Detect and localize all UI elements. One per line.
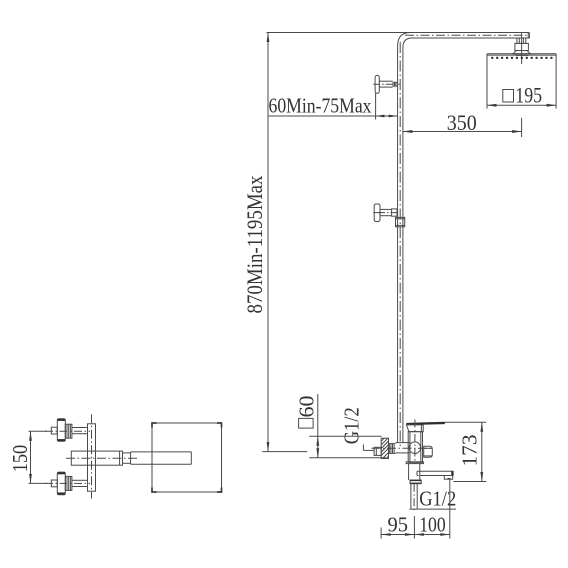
mixer vertical centerline xyxy=(414,420,416,465)
150 top extension xyxy=(29,430,48,432)
plan bottom union rod xyxy=(72,479,88,481)
shower head right side xyxy=(555,54,557,109)
plan bottom union nut xyxy=(51,480,57,487)
inlet cylinder xyxy=(396,442,410,444)
top bracket centerline xyxy=(373,83,399,85)
shower head left side xyxy=(486,54,488,109)
inlet thread xyxy=(389,443,396,445)
shower head top line xyxy=(487,53,556,55)
riser pipe centerline xyxy=(399,42,401,446)
dimension 150 line xyxy=(30,431,32,483)
arm end cap xyxy=(527,33,529,39)
173 top extension xyxy=(445,421,487,423)
plan bar centerline xyxy=(66,457,137,459)
head connector upper nut xyxy=(517,38,526,43)
aerator under spout xyxy=(444,476,452,480)
flange hatching xyxy=(381,438,384,441)
hose lines down xyxy=(410,484,412,509)
square symbol of 195 label xyxy=(503,90,514,103)
mixer body base lip xyxy=(406,462,423,464)
plan body vertical centerline xyxy=(91,414,93,498)
mixer lever handle xyxy=(406,422,445,425)
svg-text:173: 173 xyxy=(458,435,482,467)
middle extension xyxy=(413,516,415,539)
mixer collar xyxy=(406,425,423,432)
right extension xyxy=(449,480,451,539)
bottom extension tick xyxy=(262,451,307,453)
head connector flare xyxy=(513,51,530,54)
lower bracket rod xyxy=(380,208,392,210)
spout xyxy=(417,470,453,472)
arrows 95 xyxy=(381,533,391,536)
inlet centerline xyxy=(372,447,433,449)
top bracket rod xyxy=(379,80,392,82)
lower bracket centerline xyxy=(378,212,399,214)
lower bracket clamp block xyxy=(392,209,397,216)
top extension line + shower arm top line xyxy=(267,32,530,34)
150 bottom extension xyxy=(29,482,48,484)
spout end cap xyxy=(451,471,453,476)
pipe union block xyxy=(396,217,405,226)
svg-text:350: 350 xyxy=(447,110,477,135)
G1/2 leader horizontal xyxy=(363,449,374,451)
dimension 350 line xyxy=(403,131,522,133)
plan body vertical bar xyxy=(88,424,96,491)
head center cross tick xyxy=(516,54,529,56)
svg-text:870Min-1195Max: 870Min-1195Max xyxy=(242,176,267,314)
arrow bottom xyxy=(267,442,270,452)
plan wide bar inner end line xyxy=(119,451,121,465)
bracket extension line down xyxy=(375,93,377,119)
173 bottom extension xyxy=(454,481,487,483)
plan arm into square xyxy=(131,451,192,453)
square-60 dimension line xyxy=(317,394,319,458)
extension line 350 right xyxy=(521,118,523,137)
hose outlet fitting xyxy=(410,480,421,484)
svg-text:G1/2: G1/2 xyxy=(340,407,364,444)
svg-text:95: 95 xyxy=(388,512,409,536)
60Min-75Max dim line xyxy=(376,115,398,117)
arrow at pipe xyxy=(389,115,398,118)
plan top union ribs xyxy=(65,424,72,438)
arm centerline xyxy=(405,34,527,36)
95/100 dimension line xyxy=(381,534,450,536)
vertical dimension 870Min-1195Max line xyxy=(267,33,269,452)
60Min-75Max underline xyxy=(268,115,376,117)
G1/2 leader vertical xyxy=(362,445,364,451)
right outlet boss xyxy=(424,446,433,457)
svg-text:G1/2: G1/2 xyxy=(419,487,456,511)
plan arm transition xyxy=(123,452,131,454)
plan top union centerline xyxy=(45,430,90,432)
wall flange xyxy=(381,438,388,458)
G1/2 bottom underline xyxy=(410,508,457,510)
shower arm bottom line xyxy=(412,37,530,39)
svg-text:100: 100 xyxy=(419,512,446,536)
square-60 bottom extension xyxy=(309,457,386,459)
shower head second line xyxy=(487,54,556,56)
top bracket thread xyxy=(393,81,398,83)
svg-text:60Min-75Max: 60Min-75Max xyxy=(269,94,372,118)
head center vertical line xyxy=(521,33,523,64)
plan bottom union centerline xyxy=(45,482,90,484)
arrows 100 xyxy=(414,533,424,536)
arrow top xyxy=(267,33,270,43)
svg-text:60: 60 xyxy=(295,396,319,418)
arrow right of 195 xyxy=(547,104,557,107)
left extension xyxy=(380,528,382,539)
lower bracket handle bar xyxy=(374,204,380,222)
arm bend outer xyxy=(398,33,411,47)
plan square head xyxy=(152,423,222,492)
mixer circle xyxy=(409,442,421,454)
arrow 350 left xyxy=(403,130,413,133)
riser pipe right line xyxy=(402,48,404,443)
svg-text:195: 195 xyxy=(515,83,542,108)
top wall bracket plate xyxy=(375,75,379,93)
head connector middle nut xyxy=(515,43,529,50)
plan square corner ticks xyxy=(152,423,222,492)
arrow 350 right xyxy=(512,130,522,133)
arm bend inner xyxy=(403,38,412,48)
neck below body xyxy=(408,464,410,480)
plan bottom union ribs xyxy=(65,476,72,490)
plan top union nut xyxy=(51,427,57,434)
inlet end cap xyxy=(374,447,381,455)
plan body wide bar xyxy=(71,451,122,465)
head bottom dimension line 195 xyxy=(487,104,556,106)
arrow left of 195 xyxy=(487,104,497,107)
square symbol of 60 label xyxy=(299,418,314,428)
riser pipe left line xyxy=(397,46,399,443)
lower bracket handle cross line xyxy=(373,212,381,214)
square-60 top extension xyxy=(309,435,381,437)
svg-text:150: 150 xyxy=(8,445,32,473)
plan top union disc xyxy=(57,419,65,442)
shower head nozzle ticks xyxy=(491,57,552,59)
plan bottom union disc xyxy=(57,472,65,495)
dimension 173 line xyxy=(481,422,483,481)
arrow at wall xyxy=(376,115,385,118)
plan top union rod xyxy=(72,427,88,429)
mixer body xyxy=(408,432,422,463)
